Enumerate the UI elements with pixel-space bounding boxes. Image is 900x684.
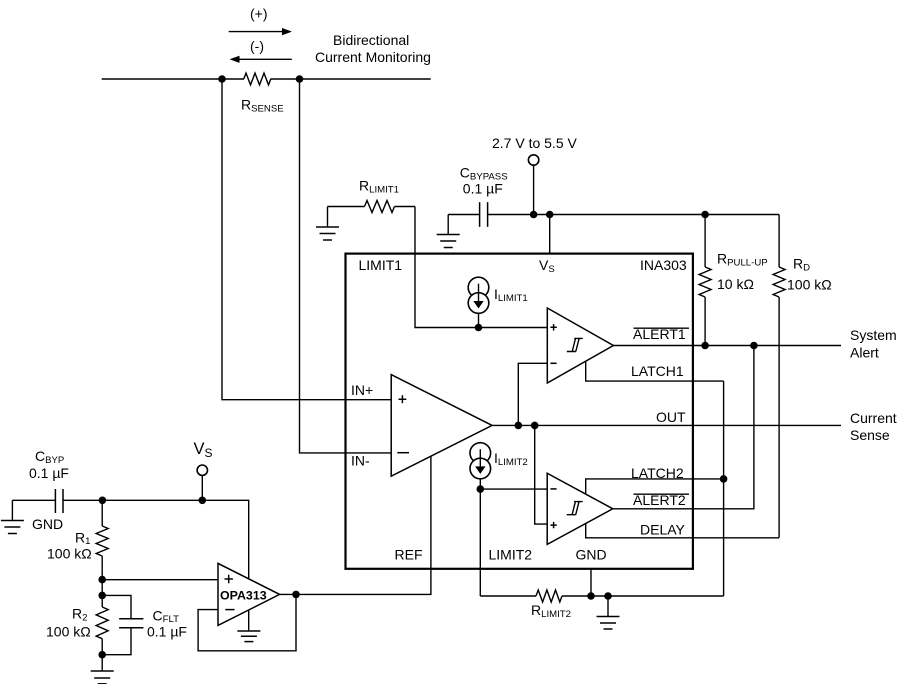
wire from RSENSE right node down to IN- <box>300 79 392 453</box>
wire comparator2 inverting input <box>480 488 547 490</box>
terminal VS circle <box>197 465 207 475</box>
wire ALERT1 output to system alert <box>613 345 841 347</box>
ground at RLIMIT2 rail <box>597 596 620 629</box>
ground at CBYP <box>1 500 24 533</box>
svg-text:0.1 µF: 0.1 µF <box>147 624 187 640</box>
node ground rail at ground symbol <box>604 592 612 600</box>
wire main bus right segment <box>271 78 431 80</box>
node LATCH2 tie <box>720 475 728 483</box>
wire VS pin into box <box>549 215 551 254</box>
node junction left of RSENSE <box>218 75 226 83</box>
svg-text:Sense: Sense <box>850 427 890 443</box>
node supply at terminal <box>530 211 538 219</box>
node OUT to comparator2 <box>531 422 539 430</box>
svg-text:DELAY: DELAY <box>640 522 686 538</box>
svg-text:10 kΩ: 10 kΩ <box>717 276 754 292</box>
resistor RLIMIT2 <box>480 590 723 602</box>
node R2 top CFLT <box>98 592 106 600</box>
svg-text:100 kΩ: 100 kΩ <box>47 546 92 562</box>
ground at OPA313 <box>237 631 260 642</box>
resistor R1 <box>96 500 108 579</box>
svg-text:INA303: INA303 <box>640 257 687 273</box>
wire lower supply rail <box>63 500 249 579</box>
wire OUT down to comparator2 noninverting input <box>535 425 548 524</box>
node opa output feedback <box>292 591 300 599</box>
current source ILIMIT2 <box>470 443 491 489</box>
wire supply rail <box>488 214 779 216</box>
svg-text:0.1 µF: 0.1 µF <box>29 465 69 481</box>
svg-text:OPA313: OPA313 <box>220 589 267 603</box>
wire divider node to opa noninverting input <box>102 579 218 581</box>
node ALERT1 at RPULL-UP <box>701 342 709 350</box>
comparator U1 alert1 <box>547 308 613 383</box>
wire opa output to REF pin <box>280 456 431 594</box>
label Current Sense <box>850 410 897 443</box>
node R2 bottom <box>98 651 106 659</box>
wire latch tie vertical <box>723 381 725 596</box>
wire VS terminal to rail <box>201 475 203 500</box>
wire from RSENSE left node down to IN+ <box>222 79 391 400</box>
node R1 bottom to opa <box>98 576 106 584</box>
arrow current negative direction <box>230 56 292 63</box>
capacitor CBYPASS <box>448 202 487 227</box>
svg-text:System: System <box>850 327 897 343</box>
svg-text:LATCH1: LATCH1 <box>631 363 684 379</box>
IC body INA303 <box>346 254 693 569</box>
wire supply terminal to rail <box>533 165 535 214</box>
wire LIMIT2 node down to RLIMIT2 <box>479 489 481 596</box>
node at LIMIT2 comparator input <box>477 485 485 493</box>
terminal supply input circle <box>528 155 538 165</box>
svg-text:Current Monitoring: Current Monitoring <box>315 49 431 65</box>
capacitor CBYP <box>12 489 63 513</box>
wire LATCH1 to ground tie <box>586 361 724 381</box>
svg-text:REF: REF <box>395 547 423 563</box>
wire ALERT2 output to alert tie <box>613 346 754 509</box>
node ALERT1 at ALERT2 tie <box>750 342 758 350</box>
resistor R2 <box>96 580 108 655</box>
node rail at VS <box>199 497 207 505</box>
svg-text:Current: Current <box>850 410 897 426</box>
wire opa feedback loop <box>198 594 296 650</box>
op-amp OPA313 <box>218 563 280 625</box>
svg-text:GND: GND <box>32 516 63 532</box>
ground at CBYPASS <box>437 215 460 248</box>
wire opa V- to ground <box>248 610 250 631</box>
wire DELAY to RD <box>586 524 779 538</box>
capacitor CFLT <box>102 619 143 655</box>
svg-text:2.7 V to 5.5 V: 2.7 V to 5.5 V <box>492 135 577 151</box>
wire node to CFLT top <box>102 595 131 618</box>
svg-text:IN+: IN+ <box>351 382 373 398</box>
node at LIMIT1 comparator input <box>475 324 483 332</box>
svg-text:OUT: OUT <box>656 409 686 425</box>
svg-text:GND: GND <box>576 547 607 563</box>
svg-text:Bidirectional: Bidirectional <box>333 32 409 48</box>
label ALERT1 pin with overline <box>633 326 689 342</box>
ground at RLIMIT1 <box>316 207 339 241</box>
wire RLIMIT1 to LIMIT1 comparator input <box>415 207 547 328</box>
resistor RPULL-UP <box>699 215 711 346</box>
wire GND pin to ground rail <box>590 569 592 596</box>
node junction right of RSENSE <box>296 75 304 83</box>
wire OUT to current sense <box>492 424 841 426</box>
svg-text:IN-: IN- <box>351 453 370 469</box>
svg-text:(+): (+) <box>250 6 268 22</box>
resistor RD <box>773 215 785 538</box>
svg-text:100 kΩ: 100 kΩ <box>787 276 832 292</box>
svg-text:0.1 µF: 0.1 µF <box>463 181 503 197</box>
node supply at RPULL-UP <box>701 211 709 219</box>
comparator U2 alert2 <box>547 473 613 544</box>
svg-text:(-): (-) <box>250 38 264 54</box>
label System Alert <box>850 327 897 361</box>
svg-text:LIMIT2: LIMIT2 <box>489 547 533 563</box>
node OUT to comparator1 <box>515 422 523 430</box>
wire main bus left segment <box>102 78 244 80</box>
node rail at R1 <box>99 497 107 505</box>
svg-text:LIMIT1: LIMIT1 <box>359 257 403 273</box>
current source ILIMIT1 <box>468 277 489 327</box>
label Bidirectional Current Monitoring <box>315 32 431 65</box>
arrow current positive direction <box>229 28 292 35</box>
resistor RLIMIT1 <box>328 201 416 213</box>
wire comparator1 inverting input from OUT <box>518 363 547 425</box>
svg-text:100 kΩ: 100 kΩ <box>46 623 91 639</box>
resistor RSENSE <box>244 73 271 85</box>
node supply at VS pin <box>546 211 554 219</box>
svg-text:Alert: Alert <box>850 345 879 361</box>
node ground rail at GND pin <box>587 592 595 600</box>
op-amp main current-sense amplifier <box>391 375 492 477</box>
wire LATCH2 to ground tie <box>586 479 724 494</box>
label ALERT2 pin with overline <box>633 492 689 508</box>
ground at R2 <box>91 655 114 684</box>
